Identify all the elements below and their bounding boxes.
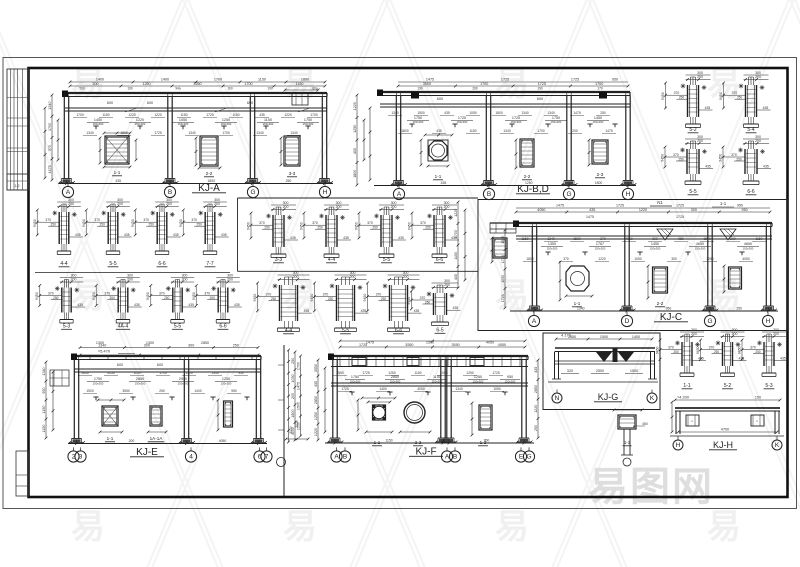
svg-text:200: 200 [697,139,703,143]
svg-text:1220: 1220 [598,257,606,261]
svg-text:250: 250 [714,350,720,354]
svg-text:K: K [650,395,655,402]
svg-text:1400: 1400 [96,78,104,82]
svg-text:A: A [334,454,339,461]
svg-text:1220: 1220 [639,208,647,212]
svg-text:2850: 2850 [81,371,89,375]
svg-text:4050: 4050 [219,439,227,443]
svg-text:250: 250 [286,179,292,183]
svg-text:G: G [526,454,531,461]
svg-text:1725: 1725 [616,204,624,208]
svg-text:1475: 1475 [586,215,594,219]
svg-text:260: 260 [472,87,478,91]
svg-text:435: 435 [75,233,81,237]
svg-text:4-4: 4-4 [328,257,335,263]
svg-text:1300: 1300 [146,341,154,345]
svg-text:150x300: 150x300 [595,247,606,251]
svg-text:600: 600 [157,363,163,367]
svg-text:N1: N1 [657,200,663,205]
svg-text:150x300: 150x300 [135,122,146,126]
svg-text:950: 950 [612,78,618,82]
svg-text:1700: 1700 [297,362,301,370]
svg-text:1500: 1500 [573,237,581,241]
svg-text:435: 435 [453,306,459,310]
svg-text:B: B [168,189,172,196]
svg-text:9450: 9450 [253,294,257,302]
svg-text:1400: 1400 [379,387,387,391]
svg-text:易图网: 易图网 [588,465,714,509]
svg-text:250: 250 [328,297,334,301]
svg-text:150x300: 150x300 [93,122,104,126]
svg-text:370: 370 [266,293,272,297]
svg-text:200: 200 [71,278,77,282]
svg-text:200: 200 [444,205,450,209]
svg-text:K: K [775,442,780,449]
svg-text:B: B [453,454,457,461]
svg-text:150x300: 150x300 [413,120,424,124]
svg-text:1800: 1800 [301,78,309,82]
svg-text:600: 600 [147,101,153,105]
svg-text:1400: 1400 [632,335,640,339]
svg-text:200: 200 [350,275,356,279]
svg-text:2850: 2850 [314,396,318,404]
svg-text:300: 300 [755,135,761,139]
svg-text:300: 300 [755,71,761,75]
svg-text:1050: 1050 [440,371,448,375]
svg-text:9450: 9450 [82,219,86,227]
svg-text:1220: 1220 [154,113,162,117]
svg-text:D: D [625,318,630,325]
svg-text:170: 170 [597,87,603,91]
svg-text:1700: 1700 [222,131,230,135]
svg-text:9450: 9450 [719,92,723,100]
svg-text:300: 300 [127,274,133,278]
svg-text:2-2: 2-2 [657,301,664,306]
svg-text:9450: 9450 [192,292,196,300]
svg-text:250: 250 [678,157,684,161]
svg-text:1150: 1150 [42,406,46,414]
svg-text:370: 370 [750,346,756,350]
svg-text:250: 250 [736,307,742,311]
svg-text:200: 200 [391,205,397,209]
svg-text:2-2: 2-2 [415,440,422,445]
svg-text:1725: 1725 [501,78,509,82]
svg-text:1500: 1500 [417,111,425,115]
svg-text:200: 200 [214,202,220,206]
svg-text:300: 300 [697,71,703,75]
svg-text:150x300: 150x300 [178,122,189,126]
svg-text:1150: 1150 [102,113,109,117]
svg-text:150: 150 [755,396,761,400]
svg-text:250: 250 [317,226,323,230]
svg-text:1-1: 1-1 [114,170,121,175]
svg-text:950: 950 [238,371,244,375]
svg-text:4-4: 4-4 [60,261,67,267]
svg-text:250: 250 [110,296,116,300]
svg-text:435: 435 [398,236,404,240]
svg-text:1475: 1475 [556,204,564,208]
svg-text:370: 370 [668,346,674,350]
svg-text:150x300: 150x300 [511,120,522,124]
svg-text:150x300: 150x300 [221,382,232,386]
svg-text:435: 435 [361,309,367,313]
svg-text:370: 370 [732,91,738,95]
svg-text:1700: 1700 [480,82,488,86]
svg-text:370: 370 [259,221,265,225]
svg-text:300: 300 [732,328,738,332]
svg-text:4050: 4050 [417,387,425,391]
svg-text:300: 300 [336,201,342,205]
svg-text:6-6: 6-6 [747,189,754,195]
svg-text:300: 300 [227,274,233,278]
svg-text:250: 250 [381,297,387,301]
svg-text:200: 200 [572,129,578,133]
svg-text:≈5.470: ≈5.470 [98,349,111,354]
svg-text:9450: 9450 [408,222,412,230]
svg-text:190: 190 [127,87,133,91]
svg-text:H: H [766,318,771,325]
svg-text:250: 250 [737,96,743,100]
svg-text:200: 200 [283,205,289,209]
svg-text:370: 370 [600,237,606,241]
svg-text:1475: 1475 [605,129,613,133]
svg-text:190: 190 [267,87,273,91]
svg-text:3550: 3550 [405,343,413,347]
svg-text:1050: 1050 [469,111,477,115]
svg-text:1220: 1220 [454,209,458,217]
svg-text:300: 300 [691,208,697,212]
svg-text:600: 600 [437,97,443,101]
svg-text:6-6: 6-6 [436,257,443,263]
svg-text:1-1: 1-1 [374,440,381,445]
svg-text:1800: 1800 [495,111,503,115]
svg-text:435: 435 [343,236,349,240]
svg-text:200: 200 [117,202,123,206]
svg-text:250: 250 [51,223,57,227]
svg-text:250: 250 [291,358,295,364]
svg-text:5-5: 5-5 [109,261,116,267]
svg-text:300: 300 [691,328,697,332]
svg-text:1500: 1500 [600,335,608,339]
svg-text:370: 370 [367,221,373,225]
svg-text:435: 435 [290,236,296,240]
svg-text:200: 200 [293,275,299,279]
svg-text:435: 435 [234,303,240,307]
svg-text:2850: 2850 [534,385,538,393]
svg-text:1725: 1725 [341,387,349,391]
svg-text:1500: 1500 [86,389,94,393]
svg-text:9450: 9450 [131,219,135,227]
svg-text:150x300: 150x300 [263,122,274,126]
svg-text:370: 370 [731,153,737,157]
svg-text:5-5: 5-5 [383,257,390,263]
svg-text:1700: 1700 [537,129,545,133]
svg-text:易: 易 [707,508,741,546]
svg-text:370: 370 [48,292,54,296]
svg-text:1150: 1150 [232,113,239,117]
svg-text:1:2: 1:2 [15,184,20,188]
svg-text:300: 300 [117,198,123,202]
svg-text:600: 600 [117,363,123,367]
svg-text:9450: 9450 [33,219,37,227]
svg-text:1725: 1725 [154,131,162,135]
svg-text:1-1: 1-1 [435,174,442,179]
svg-text:200: 200 [730,237,736,241]
svg-text:4-4: 4-4 [285,328,292,334]
svg-text:1700: 1700 [48,123,52,131]
svg-text:2-2: 2-2 [524,174,531,179]
svg-text:370: 370 [673,153,679,157]
svg-text:1750: 1750 [351,375,359,379]
svg-text:250: 250 [264,226,270,230]
svg-text:200: 200 [336,205,342,209]
svg-text:250: 250 [673,350,679,354]
svg-text:1-1: 1-1 [720,201,727,206]
svg-text:4A-4: 4A-4 [118,324,129,330]
svg-text:1475: 1475 [426,78,434,82]
svg-text:150x300: 150x300 [135,382,146,386]
svg-text:200: 200 [127,278,133,282]
svg-text:1340: 1340 [521,111,529,115]
svg-text:6-6: 6-6 [219,324,226,330]
svg-text:1725: 1725 [501,255,505,263]
svg-text:450: 450 [642,422,648,426]
svg-text:250: 250 [197,223,203,227]
svg-text:435: 435 [353,148,357,154]
svg-text:370: 370 [420,296,426,300]
svg-text:200: 200 [732,332,738,336]
svg-text:1500: 1500 [501,236,505,244]
svg-text:N: N [555,395,560,402]
svg-text:H: H [676,442,681,449]
svg-text:5-5: 5-5 [689,189,696,195]
svg-text:300: 300 [283,201,289,205]
svg-text:950: 950 [507,375,513,379]
svg-text:2850: 2850 [201,341,209,345]
svg-text:150x300: 150x300 [593,120,604,124]
svg-text:1700: 1700 [214,78,222,82]
svg-text:370: 370 [45,218,51,222]
svg-text:1340: 1340 [547,111,555,115]
svg-text:1800: 1800 [401,129,409,133]
svg-text:1340: 1340 [455,387,463,391]
svg-text:950: 950 [678,237,684,241]
svg-text:6-6: 6-6 [395,328,402,334]
svg-text:5-2: 5-2 [689,127,696,133]
svg-text:250: 250 [755,350,761,354]
svg-text:5-5: 5-5 [174,324,181,330]
svg-text:1150: 1150 [414,371,421,375]
svg-text:370: 370 [312,221,318,225]
svg-text:1050: 1050 [634,257,642,261]
svg-text:1050: 1050 [501,275,505,283]
svg-text:250: 250 [149,223,155,227]
svg-text:250: 250 [425,226,431,230]
svg-text:300: 300 [652,237,658,241]
svg-text:435: 435 [763,165,769,169]
svg-text:435: 435 [441,181,447,185]
svg-text:9450: 9450 [719,154,723,162]
svg-text:250: 250 [271,297,277,301]
svg-text:3: 3 [79,454,83,461]
svg-text:370: 370 [204,292,210,296]
svg-text:H: H [626,191,631,198]
svg-text:1725: 1725 [676,215,684,219]
svg-text:1250: 1250 [142,82,150,86]
svg-text:435: 435 [534,367,538,373]
svg-text:250: 250 [600,111,606,115]
svg-text:1340: 1340 [211,371,219,375]
svg-text:1250: 1250 [388,371,396,375]
svg-text:1400: 1400 [161,78,169,82]
svg-text:950: 950 [742,208,748,212]
svg-text:150x300: 150x300 [473,380,484,384]
svg-text:9450: 9450 [355,222,359,230]
svg-text:300: 300 [350,271,356,275]
svg-text:435: 435 [173,233,179,237]
svg-text:1150: 1150 [258,78,266,82]
svg-text:370: 370 [48,145,52,151]
svg-text:2-3: 2-3 [597,172,604,177]
svg-text:300: 300 [671,257,677,261]
svg-text:1700: 1700 [76,113,84,117]
svg-text:2850: 2850 [391,375,399,379]
svg-text:320: 320 [567,369,573,373]
svg-text:190: 190 [417,87,423,91]
svg-text:200: 200 [755,75,761,79]
svg-text:300: 300 [214,198,220,202]
svg-text:1340: 1340 [42,367,46,375]
svg-text:3030: 3030 [289,426,293,434]
svg-text:3550: 3550 [423,82,431,86]
svg-text:KJ-H: KJ-H [713,440,733,450]
svg-text:易: 易 [495,508,529,546]
svg-text:1-2: 1-2 [480,440,487,445]
svg-text:1475: 1475 [573,111,581,115]
svg-text:易: 易 [71,65,105,103]
svg-text:435: 435 [705,165,711,169]
svg-text:600: 600 [107,101,113,105]
svg-text:150x300: 150x300 [650,247,661,251]
svg-text:435: 435 [414,309,420,313]
svg-text:1767: 1767 [596,242,604,246]
svg-text:300: 300 [403,271,409,275]
svg-text:150x300: 150x300 [303,122,314,126]
svg-text:190: 190 [537,87,543,91]
svg-text:1050: 1050 [442,439,450,443]
svg-text:1220: 1220 [284,113,292,117]
svg-text:250: 250 [100,223,106,227]
svg-text:150x300: 150x300 [93,382,104,386]
svg-text:≈4.200: ≈4.200 [677,395,690,400]
svg-text:300: 300 [391,201,397,205]
svg-text:1500: 1500 [595,181,603,185]
svg-text:1350: 1350 [548,242,556,246]
svg-text:G: G [707,318,712,325]
svg-text:1340: 1340 [188,131,196,135]
svg-text:150x300: 150x300 [390,380,401,384]
svg-text:3550: 3550 [451,343,459,347]
svg-text:250: 250 [372,226,378,230]
svg-text:1725: 1725 [206,113,214,117]
svg-text:KJ-G: KJ-G [598,392,619,402]
svg-text:1500: 1500 [630,369,638,373]
svg-text:4050: 4050 [742,257,750,261]
svg-text:200: 200 [403,275,409,279]
svg-text:1725: 1725 [571,78,579,82]
svg-text:200: 200 [691,332,697,336]
svg-text:1700: 1700 [159,371,167,375]
svg-text:1220: 1220 [128,113,136,117]
svg-text:370: 370 [143,218,149,222]
svg-text:200: 200 [755,139,761,143]
svg-text:1800: 1800 [526,257,534,261]
svg-text:9450: 9450 [661,154,665,162]
svg-text:1400: 1400 [194,389,202,393]
svg-text:1250: 1250 [474,375,482,379]
svg-text:200: 200 [182,278,188,282]
svg-text:435: 435 [188,303,194,307]
svg-text:A: A [532,318,537,325]
svg-text:300: 300 [188,344,194,348]
svg-text:1475: 1475 [48,165,52,173]
svg-text:300: 300 [773,328,779,332]
svg-text:KJ-B,D: KJ-B,D [517,184,549,195]
svg-text:250: 250 [534,425,538,431]
svg-text:1340: 1340 [391,111,399,115]
svg-text:435: 435 [77,303,83,307]
svg-text:1725: 1725 [538,82,546,86]
svg-text:250: 250 [425,300,431,304]
svg-text:1700: 1700 [595,82,603,86]
svg-text:435: 435 [259,113,265,117]
svg-text:7: 7 [265,454,269,461]
svg-text:150x300: 150x300 [350,380,361,384]
svg-text:9450: 9450 [146,292,150,300]
svg-text:3550: 3550 [193,82,201,86]
svg-text:2-2: 2-2 [206,171,213,176]
svg-text:4: 4 [189,454,193,461]
svg-text:435: 435 [589,208,595,212]
svg-text:4050: 4050 [625,237,633,241]
svg-text:200: 200 [291,393,295,399]
svg-text:1340: 1340 [290,131,298,135]
svg-text:150x300: 150x300 [505,380,516,384]
svg-text:435: 435 [454,274,458,280]
svg-text:1700: 1700 [310,113,318,117]
svg-text:4700: 4700 [721,428,729,432]
svg-text:1250: 1250 [466,371,474,375]
svg-text:4650: 4650 [744,242,752,246]
svg-text:94a: 94a [175,87,181,91]
svg-text:1150: 1150 [133,371,140,375]
svg-text:435: 435 [314,381,318,387]
svg-text:300: 300 [68,198,74,202]
svg-text:300: 300 [697,135,703,139]
svg-text:435: 435 [304,309,310,313]
svg-text:370: 370 [709,346,715,350]
svg-text:200: 200 [773,332,779,336]
svg-text:250: 250 [233,344,239,348]
svg-text:1250: 1250 [706,257,714,261]
svg-text:1475: 1475 [297,382,301,390]
svg-text:370: 370 [191,218,197,222]
svg-text:150x300: 150x300 [743,247,754,251]
svg-text:3-3: 3-3 [275,257,282,263]
svg-text:KJ-E: KJ-E [136,447,158,458]
svg-text:2850: 2850 [136,377,144,381]
svg-text:370: 370 [420,221,426,225]
